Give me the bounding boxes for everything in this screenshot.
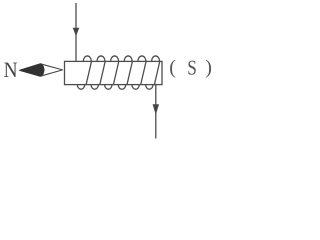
svg-text:(: (: [169, 56, 176, 78]
svg-text:N: N: [4, 57, 18, 82]
svg-text:): ): [205, 56, 212, 78]
svg-text:S: S: [187, 55, 197, 79]
